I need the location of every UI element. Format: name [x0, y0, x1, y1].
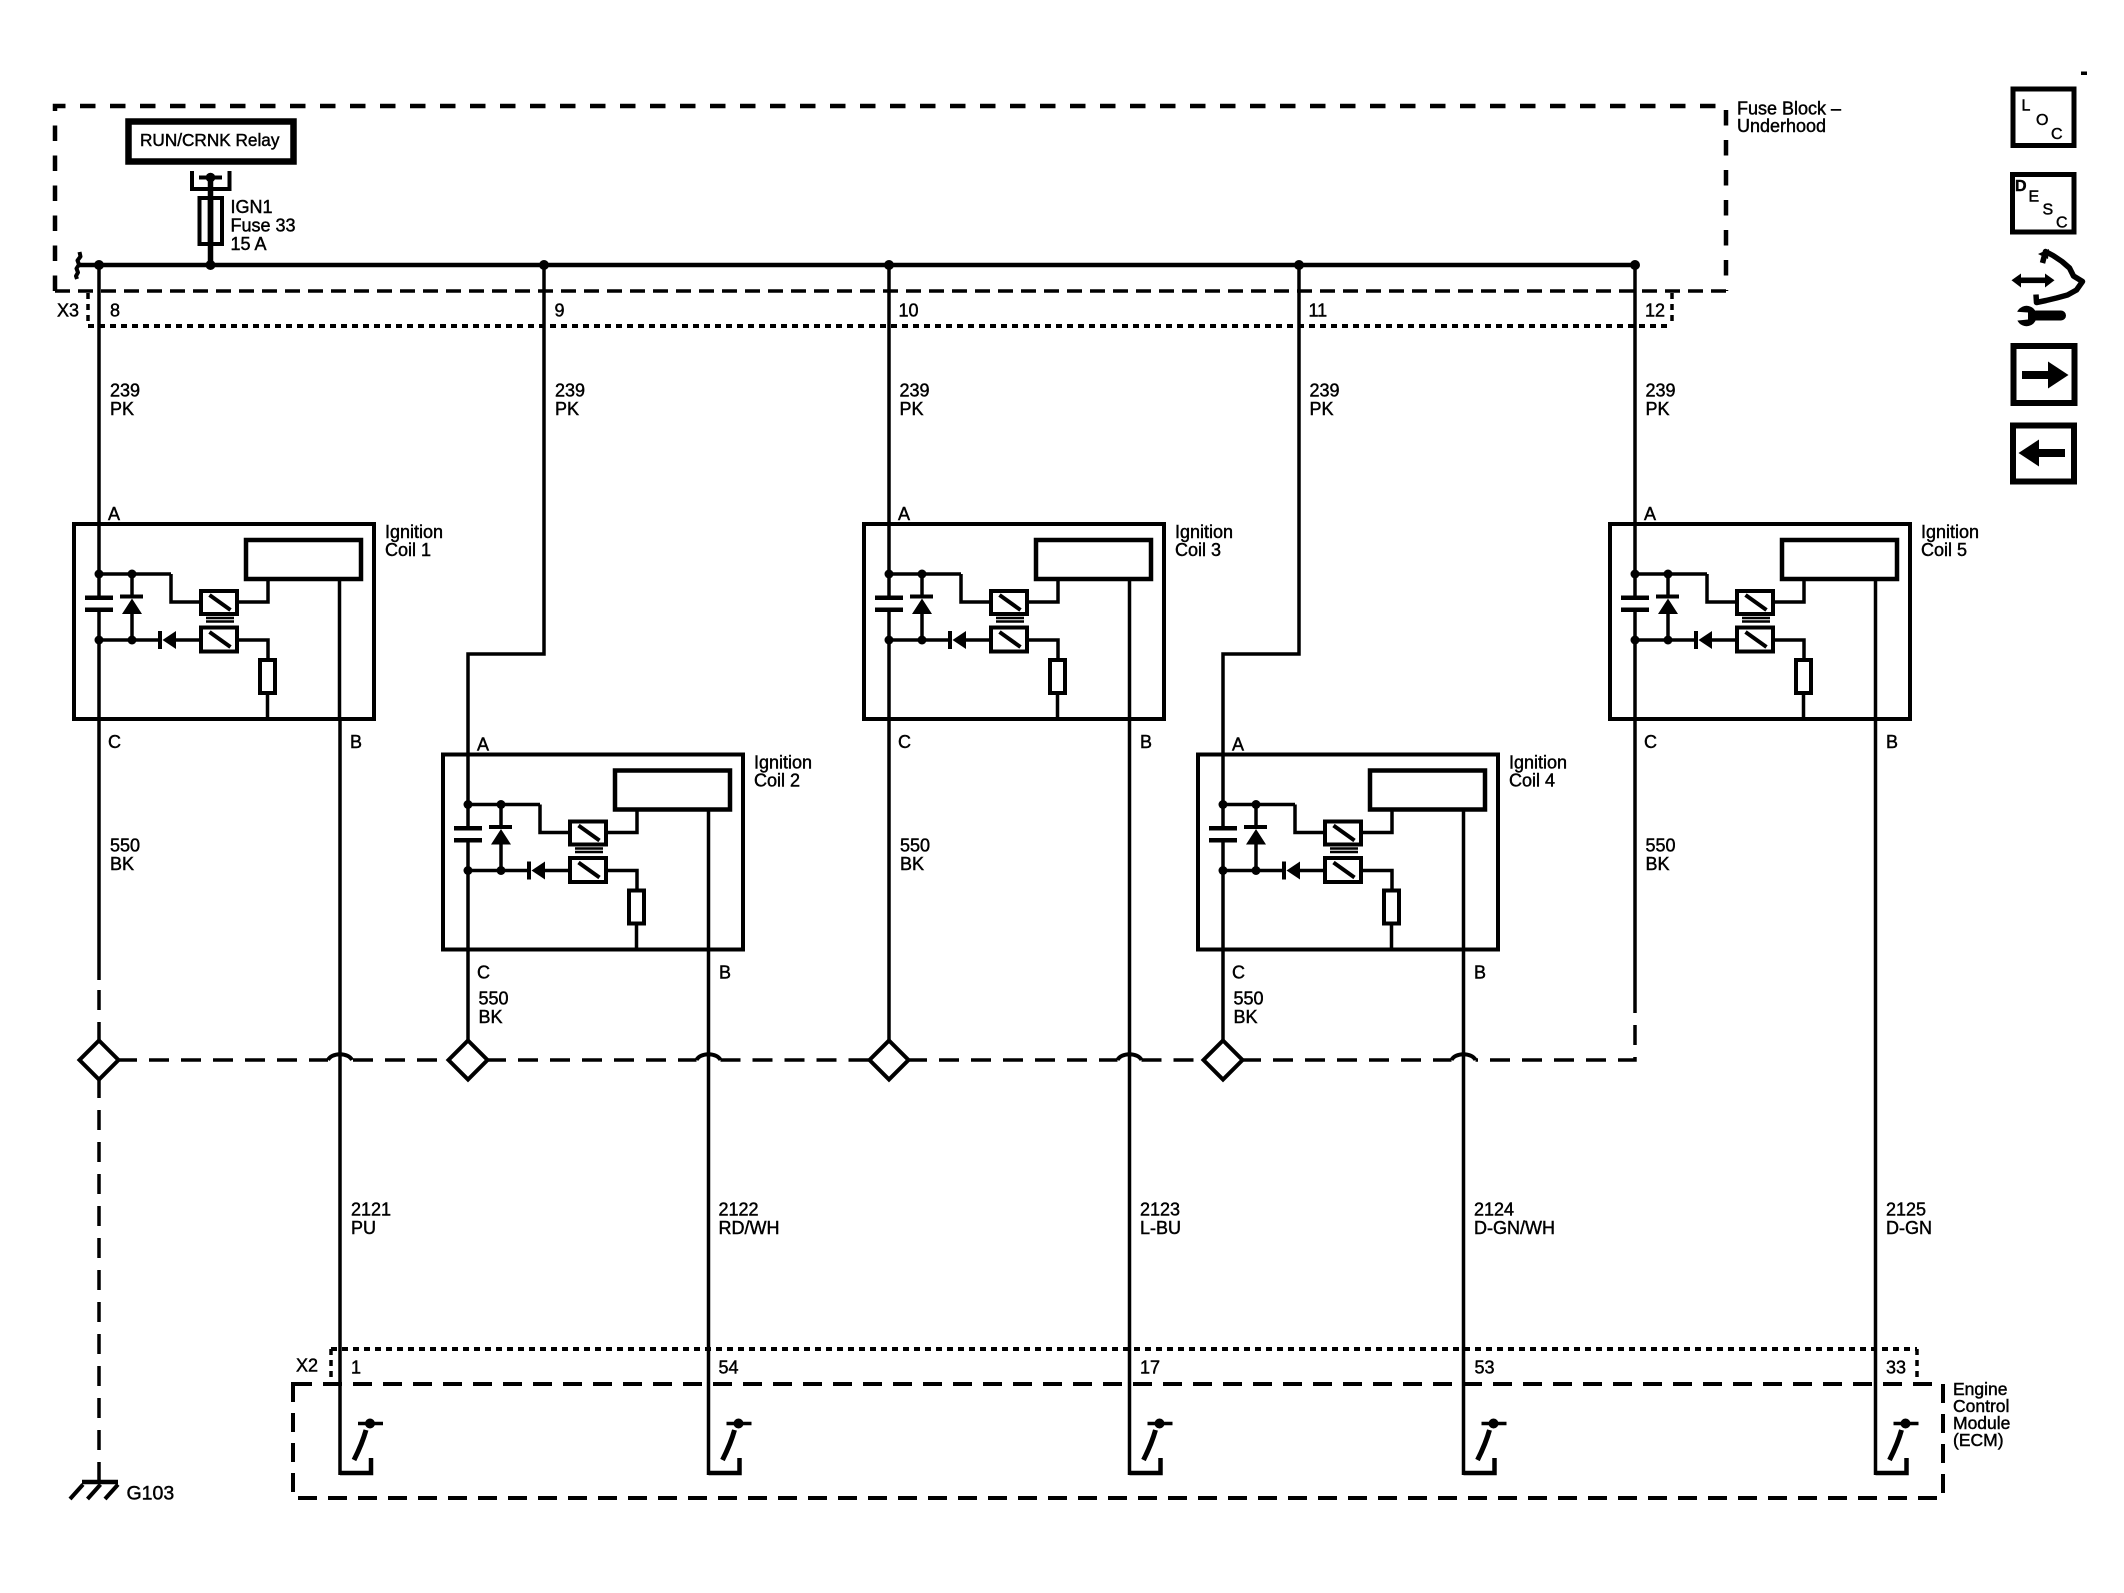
svg-text:B: B: [719, 963, 731, 983]
svg-text:239: 239: [110, 381, 140, 401]
svg-text:C: C: [898, 732, 911, 752]
svg-text:Coil 4: Coil 4: [1509, 771, 1555, 791]
svg-text:239: 239: [900, 381, 930, 401]
svg-text:PK: PK: [1310, 399, 1334, 419]
svg-text:B: B: [1140, 732, 1152, 752]
svg-text:11: 11: [1309, 301, 1328, 321]
svg-text:A: A: [1644, 504, 1656, 524]
svg-text:PK: PK: [1646, 399, 1670, 419]
svg-text:Ignition: Ignition: [1921, 522, 1979, 542]
svg-text:Underhood: Underhood: [1737, 116, 1826, 136]
svg-text:BK: BK: [479, 1007, 503, 1027]
svg-text:BK: BK: [1646, 854, 1670, 874]
svg-text:E: E: [2029, 189, 2040, 206]
svg-text:BK: BK: [900, 854, 924, 874]
svg-text:239: 239: [1310, 381, 1340, 401]
svg-text:D: D: [2015, 178, 2027, 195]
svg-text:PK: PK: [555, 399, 579, 419]
svg-text:17: 17: [1140, 1358, 1160, 1378]
svg-text:B: B: [350, 732, 362, 752]
svg-text:9: 9: [555, 301, 565, 321]
svg-text:C: C: [2056, 215, 2068, 232]
svg-text:Ignition: Ignition: [385, 522, 443, 542]
svg-text:PK: PK: [110, 399, 134, 419]
svg-text:Coil 1: Coil 1: [385, 540, 431, 560]
svg-text:A: A: [477, 735, 489, 755]
svg-text:B: B: [1886, 732, 1898, 752]
svg-text:RD/WH: RD/WH: [719, 1218, 780, 1238]
svg-text:550: 550: [479, 989, 509, 1009]
svg-text:Coil 3: Coil 3: [1175, 540, 1221, 560]
svg-text:8: 8: [110, 301, 120, 321]
svg-text:BK: BK: [1234, 1007, 1258, 1027]
svg-text:X2: X2: [296, 1356, 318, 1376]
svg-text:G103: G103: [127, 1483, 175, 1505]
svg-text:239: 239: [555, 381, 585, 401]
svg-text:33: 33: [1886, 1358, 1906, 1378]
svg-text:C: C: [477, 963, 490, 983]
svg-text:S: S: [2043, 202, 2054, 219]
svg-text:C: C: [2051, 126, 2063, 143]
svg-text:Ignition: Ignition: [754, 753, 812, 773]
svg-text:Coil 5: Coil 5: [1921, 540, 1967, 560]
svg-text:B: B: [1474, 963, 1486, 983]
svg-text:2124: 2124: [1474, 1200, 1514, 1220]
svg-text:550: 550: [110, 836, 140, 856]
svg-text:L-BU: L-BU: [1140, 1218, 1181, 1238]
svg-text:D-GN/WH: D-GN/WH: [1474, 1218, 1555, 1238]
svg-text:53: 53: [1475, 1358, 1495, 1378]
svg-text:Ignition: Ignition: [1509, 753, 1567, 773]
svg-text:X3: X3: [57, 301, 79, 321]
svg-text:Coil 2: Coil 2: [754, 771, 800, 791]
svg-text:A: A: [898, 504, 910, 524]
svg-text:239: 239: [1646, 381, 1676, 401]
svg-text:O: O: [2036, 112, 2048, 129]
svg-text:15 A: 15 A: [231, 234, 267, 254]
svg-text:C: C: [1232, 963, 1245, 983]
svg-text:IGN1: IGN1: [231, 197, 273, 217]
svg-text:PU: PU: [351, 1218, 376, 1238]
svg-text:L: L: [2022, 98, 2031, 115]
svg-text:2121: 2121: [351, 1200, 391, 1220]
svg-text:12: 12: [1645, 301, 1665, 321]
svg-text:550: 550: [900, 836, 930, 856]
svg-text:2122: 2122: [719, 1200, 759, 1220]
svg-text:D-GN: D-GN: [1886, 1218, 1932, 1238]
svg-text:C: C: [1644, 732, 1657, 752]
svg-text:A: A: [1232, 735, 1244, 755]
svg-text:Ignition: Ignition: [1175, 522, 1233, 542]
svg-text:550: 550: [1234, 989, 1264, 1009]
svg-text:550: 550: [1646, 836, 1676, 856]
svg-text:RUN/CRNK Relay: RUN/CRNK Relay: [140, 130, 280, 150]
svg-text:(ECM): (ECM): [1953, 1430, 2004, 1450]
svg-text:BK: BK: [110, 854, 134, 874]
svg-text:1: 1: [351, 1358, 361, 1378]
svg-text:54: 54: [719, 1358, 739, 1378]
svg-text:2123: 2123: [1140, 1200, 1180, 1220]
svg-text:C: C: [108, 732, 121, 752]
svg-text:A: A: [108, 504, 120, 524]
svg-text:2125: 2125: [1886, 1200, 1926, 1220]
svg-text:Fuse 33: Fuse 33: [231, 216, 296, 236]
svg-text:10: 10: [899, 301, 919, 321]
svg-text:PK: PK: [900, 399, 924, 419]
